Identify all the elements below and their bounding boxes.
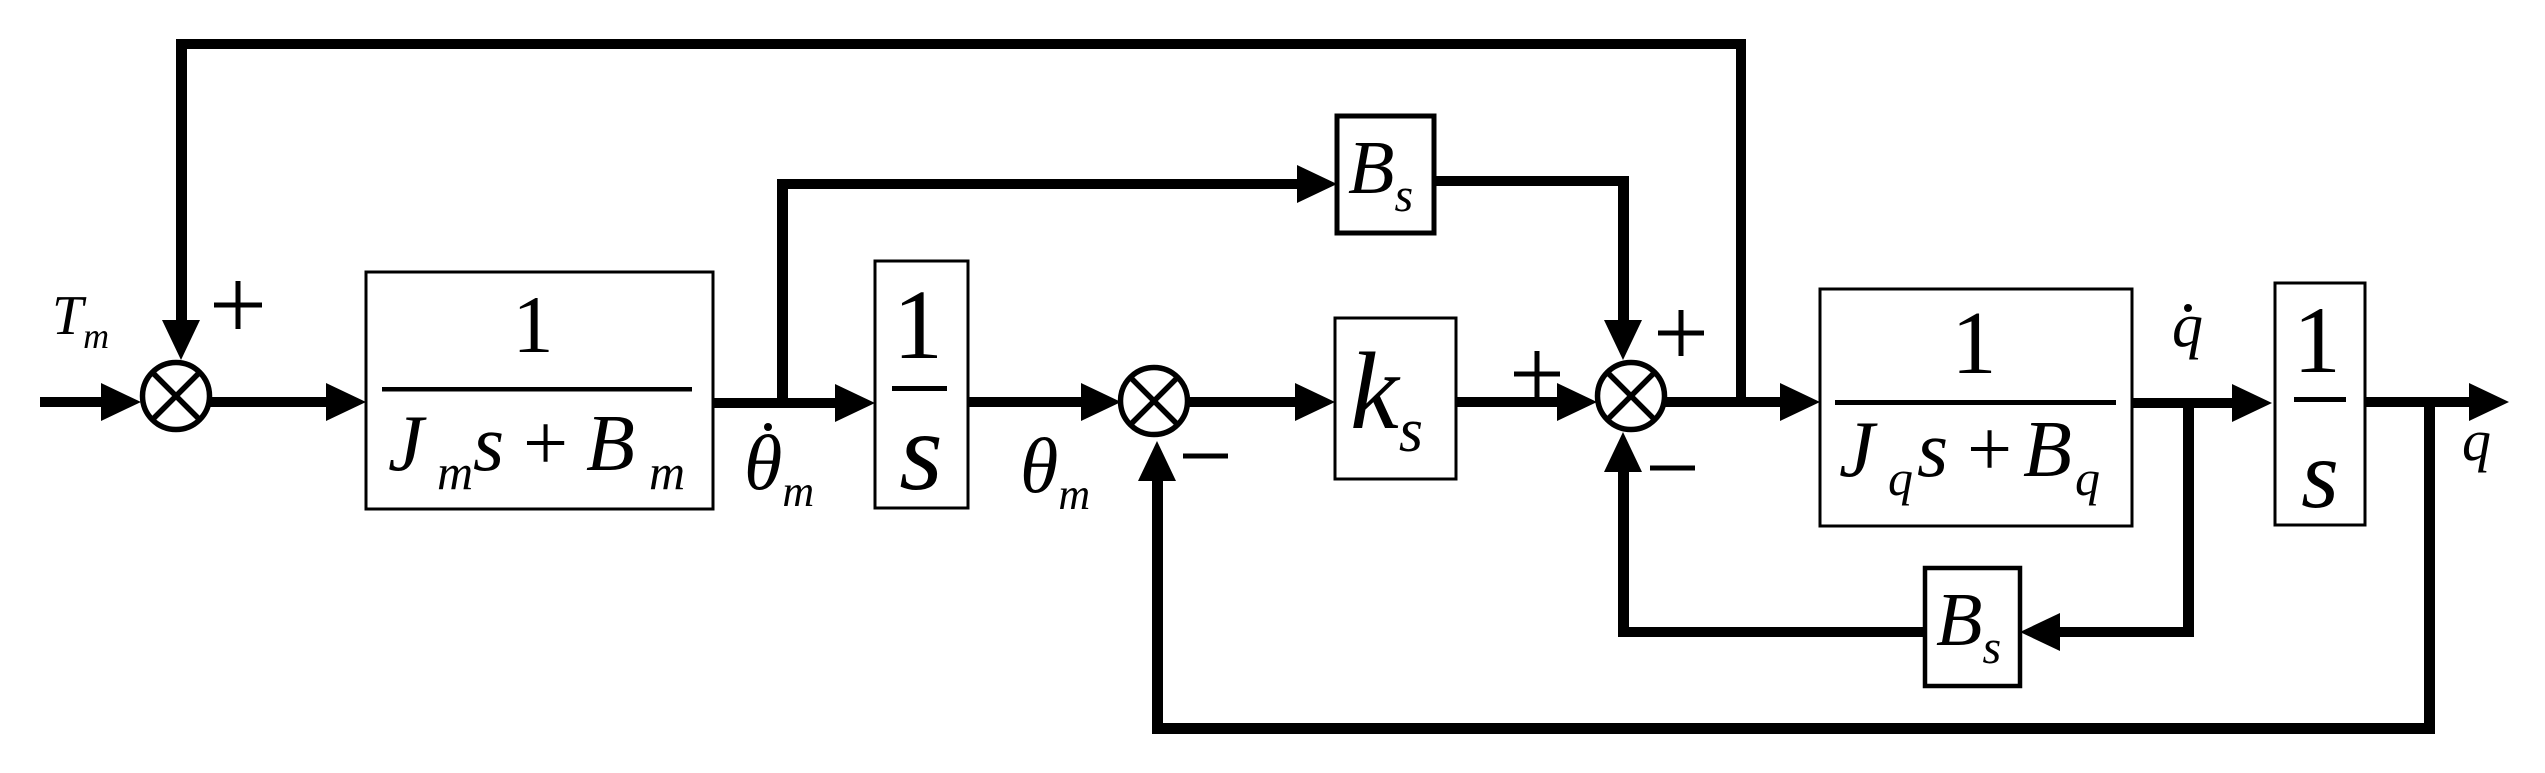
block I2: 1/s — [2275, 283, 2365, 528]
summing junction S1 — [143, 363, 210, 430]
block G2: 1/(Jq s + Bq) — [1820, 289, 2132, 526]
block I1: 1/s — [875, 261, 968, 514]
svg-text:1: 1 — [1952, 294, 1997, 393]
summing junction S3 — [1598, 363, 1665, 430]
wire: Bs bottom output left then up into S3 (minus) — [1604, 432, 1925, 637]
wire: G2 to I2 with pickoff down — [2132, 384, 2272, 422]
wire: G1 output to integrator I1 with pickoff — [713, 384, 875, 422]
svg-text:q: q — [2462, 408, 2491, 473]
plus sign left of S3 — [1514, 351, 1560, 397]
summing junction S2 — [1121, 368, 1188, 435]
svg-text:s: s — [899, 390, 943, 514]
minus sign below right of S3 — [1650, 466, 1695, 471]
svg-text:q: q — [2172, 292, 2203, 360]
wire: S2 to block K — [1188, 383, 1335, 421]
wire: I1 to summing junction S2 — [968, 383, 1121, 421]
block K: ks — [1335, 318, 1456, 479]
block Bs top — [1337, 116, 1434, 233]
minus sign at S2 — [1183, 454, 1228, 459]
wire: I2 output arrow — [2365, 383, 2509, 421]
block Bs bottom — [1925, 568, 2020, 686]
wire: input arrow into summing junction S1 — [40, 383, 141, 421]
plus sign above right of S3 — [1658, 310, 1704, 356]
block G1: 1/(Jm s + Bm) — [366, 272, 713, 509]
svg-text:s: s — [2301, 421, 2339, 528]
wire: output pickoff down, long bottom feedback to S2 (minus) — [1138, 402, 2435, 734]
wire: Bs top output right then down into S3 — [1434, 176, 1642, 360]
svg-text:1: 1 — [893, 269, 943, 380]
plus sign at S1 — [214, 281, 262, 329]
svg-text:1: 1 — [513, 279, 554, 370]
svg-text:1: 1 — [2293, 287, 2341, 393]
wire: pickoff up and long top feedback to S1 — [162, 39, 1746, 402]
wire: S3 to block G2 with pickoff up — [1665, 383, 1820, 421]
wire: pickoff down to Bs bottom — [2020, 403, 2194, 651]
wire: pickoff up to Bs(top) — [777, 165, 1337, 408]
wire: S1 to block G1 — [210, 383, 366, 421]
wire: K to summing junction S3 — [1456, 383, 1597, 421]
